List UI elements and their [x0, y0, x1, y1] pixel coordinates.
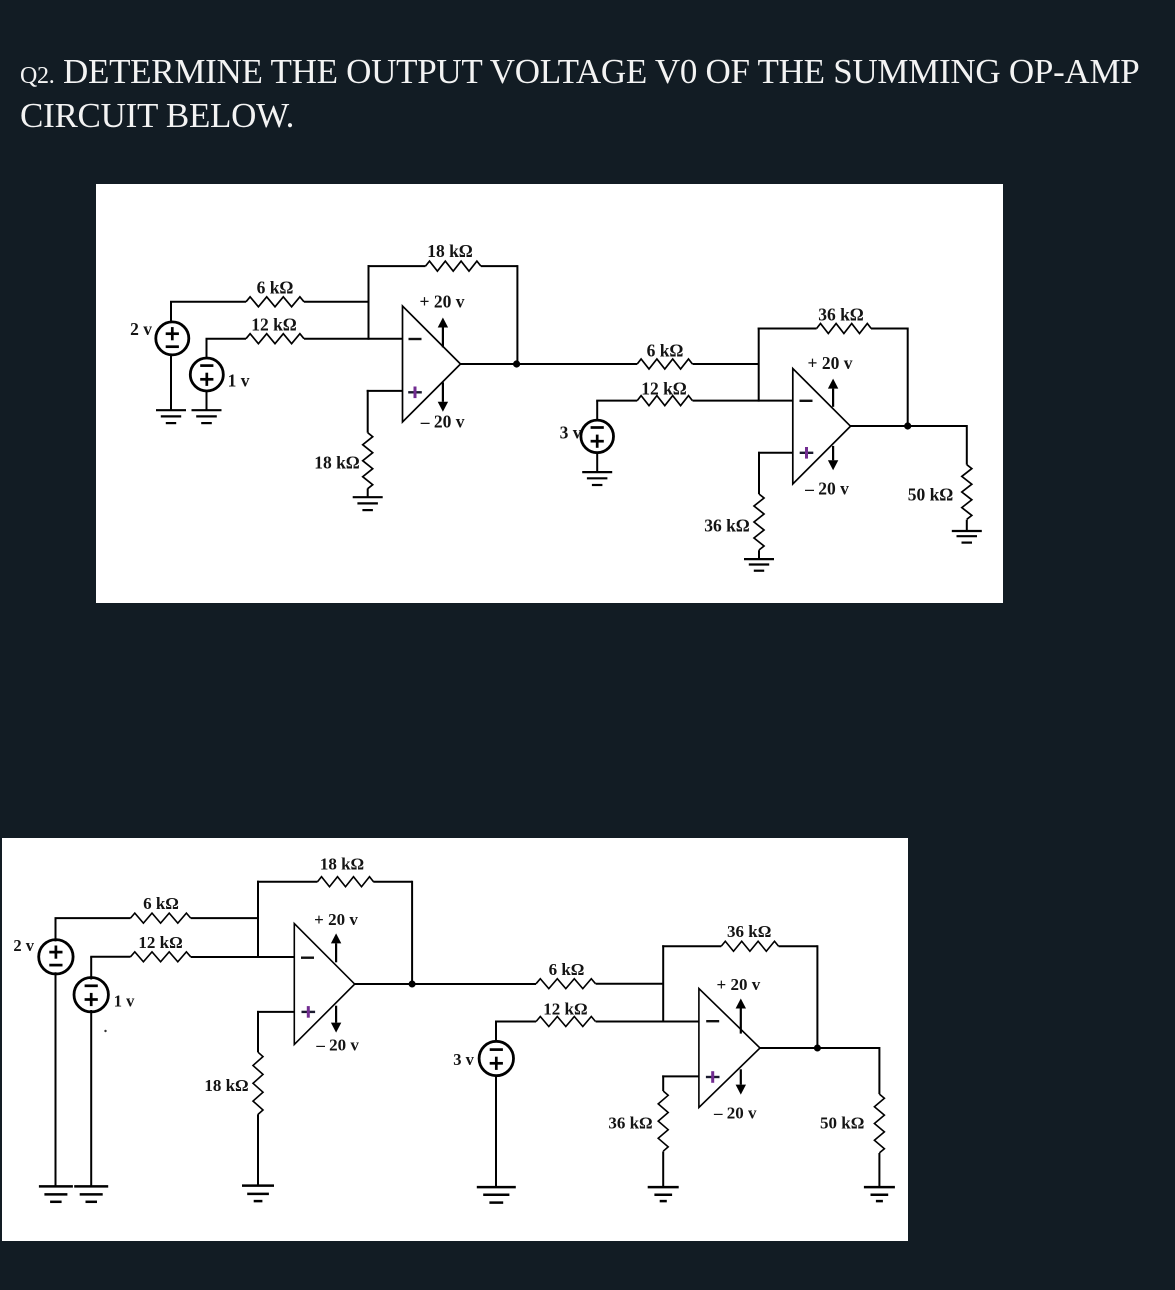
- label R1 6 kOhm: [257, 277, 294, 297]
- svg-text:– 20 v: – 20 v: [713, 1104, 757, 1123]
- svg-text:1 v: 1 v: [228, 370, 250, 390]
- svg-text:12 kΩ: 12 kΩ: [641, 379, 687, 399]
- svg-text:+ 20 v: + 20 v: [420, 292, 465, 312]
- resistor R6 12 kOhm: [637, 396, 692, 406]
- label V3 value 3 v: [560, 423, 582, 443]
- wire feedback 2 left vertical: [662, 945, 664, 1022]
- resistor R9 50 kOhm load: [962, 465, 972, 520]
- U4 non-inverting pin marker: [706, 1071, 720, 1083]
- label R2 12 kOhm: [251, 315, 297, 335]
- ground G8: [74, 1186, 108, 1201]
- label V4 value 2 v: [13, 936, 34, 955]
- label V5 value 1 v: [114, 991, 135, 1010]
- wire V1 top to 6k: [170, 302, 246, 323]
- U3 negative supply arrow: [331, 1006, 341, 1033]
- label R4 18 kOhm: [314, 453, 360, 473]
- U1 inverting pin marker: [409, 338, 422, 340]
- ground G12: [864, 1187, 895, 1201]
- resistor R4 18 kOhm to ground: [363, 433, 373, 489]
- svg-text:36 kΩ: 36 kΩ: [818, 304, 864, 324]
- wire feedback top right: [481, 265, 518, 267]
- label V2 value 1 v: [228, 370, 250, 390]
- op-amp U2: [793, 369, 851, 485]
- wire U3 output: [355, 983, 536, 985]
- svg-text:12 kΩ: 12 kΩ: [251, 315, 297, 335]
- wire R1 to inverting node: [304, 301, 369, 303]
- wire to R9 load: [966, 425, 968, 465]
- voltage source V2 1v: [190, 358, 223, 391]
- label U1 -20 v: [420, 412, 465, 432]
- U1 non-inverting pin marker: [408, 387, 422, 399]
- label R6 12 kOhm: [641, 379, 687, 399]
- label R8 36 kOhm: [704, 515, 750, 535]
- wire feedback 2 right vertical: [816, 945, 818, 1048]
- label R3 18 kOhm: [427, 241, 473, 261]
- node N1 output junction: [513, 360, 520, 367]
- wire feedback right vertical to output: [516, 265, 518, 364]
- U1 positive supply arrow: [438, 318, 448, 348]
- resistor R14 6 kOhm: [536, 979, 595, 989]
- U2 positive supply arrow: [828, 379, 838, 407]
- svg-text:1 v: 1 v: [114, 991, 135, 1010]
- resistor R10 6 kOhm: [131, 913, 191, 923]
- label R12 18 kOhm: [320, 854, 364, 873]
- svg-text:50 kΩ: 50 kΩ: [820, 1114, 864, 1133]
- wire R13 to ground: [257, 1114, 259, 1185]
- wire R14 to second inverting node: [596, 983, 664, 985]
- U2 inverting pin marker: [800, 400, 813, 402]
- ground G7: [39, 1186, 73, 1201]
- node N4 output junction: [814, 1045, 821, 1052]
- node N2 output junction: [904, 422, 911, 429]
- wire V5 top to 12k: [90, 957, 130, 980]
- wire U1 output: [461, 363, 638, 365]
- voltage source V4 2v: [39, 940, 73, 974]
- ground G4: [582, 472, 612, 485]
- wire V2 bottom to ground: [206, 390, 208, 410]
- svg-text:6 kΩ: 6 kΩ: [257, 277, 294, 297]
- label R5 6 kOhm: [647, 340, 684, 360]
- label U2 -20 v: [804, 478, 849, 498]
- label U1 +20 v: [420, 292, 465, 312]
- wire feedback 2 top right: [779, 945, 818, 947]
- U4 negative supply arrow: [736, 1069, 746, 1094]
- circuit panel 2: [2, 838, 908, 1241]
- wire V6 top to 12k: [495, 1022, 536, 1043]
- svg-text:18 kΩ: 18 kΩ: [314, 453, 360, 473]
- label R18 50 kOhm: [820, 1114, 864, 1133]
- ground G6: [952, 531, 982, 543]
- svg-text:2 v: 2 v: [130, 319, 152, 339]
- U4 positive supply arrow: [736, 999, 746, 1034]
- wire R9 to ground: [966, 520, 968, 531]
- wire U2 output: [851, 425, 967, 427]
- label R14 6 kOhm: [549, 960, 585, 979]
- wire feedback top right: [373, 881, 412, 883]
- resistor R1 6 kOhm: [246, 297, 304, 307]
- wire to R18 load: [878, 1047, 880, 1094]
- svg-text:6 kΩ: 6 kΩ: [647, 340, 684, 360]
- svg-text:– 20 v: – 20 v: [315, 1035, 359, 1054]
- wire R6 to op-amp U2 inverting input: [693, 400, 793, 402]
- label R13 18 kOhm: [204, 1076, 248, 1095]
- svg-text:36 kΩ: 36 kΩ: [727, 922, 771, 941]
- wire V3 bottom to ground: [596, 452, 598, 472]
- resistor R8 36 kOhm to ground: [754, 494, 764, 550]
- U3 positive supply arrow: [331, 933, 341, 962]
- resistor R12 18 kOhm feedback: [318, 877, 374, 887]
- ground G10: [477, 1187, 516, 1203]
- svg-text:18 kΩ: 18 kΩ: [204, 1076, 248, 1095]
- svg-text:12 kΩ: 12 kΩ: [543, 999, 587, 1018]
- svg-text:36 kΩ: 36 kΩ: [704, 515, 750, 535]
- wire R5 to second inverting node: [693, 363, 759, 365]
- svg-text:+ 20 v: + 20 v: [717, 975, 761, 994]
- wire U1 non-inverting input: [367, 390, 403, 392]
- label U3 +20 v: [314, 910, 358, 929]
- ground G5: [744, 559, 774, 571]
- resistor R3 18 kOhm feedback: [426, 261, 481, 271]
- voltage source V6 3v: [479, 1041, 513, 1075]
- svg-text:18 kΩ: 18 kΩ: [427, 241, 473, 261]
- U2 negative supply arrow: [828, 446, 838, 470]
- label R9 50 kOhm: [908, 485, 954, 505]
- svg-text:2 v: 2 v: [13, 936, 34, 955]
- op-amp U4: [699, 989, 760, 1108]
- wire V1 bottom to ground: [170, 354, 172, 410]
- label V1 value 2 v: [130, 319, 152, 339]
- wire V4 bottom to ground: [55, 972, 57, 1186]
- op-amp U1: [403, 306, 461, 422]
- resistor R7 36 kOhm feedback: [817, 324, 872, 334]
- wire R10 to inverting node: [191, 917, 258, 919]
- ground G9: [242, 1186, 274, 1202]
- wire V5 bottom to ground: [90, 1010, 92, 1186]
- svg-text:+ 20 v: + 20 v: [314, 910, 358, 929]
- stray dot mark: [104, 1030, 106, 1032]
- wire feedback 2 top right: [871, 328, 908, 330]
- label R10 6 kOhm: [143, 894, 179, 913]
- title question text: [20, 52, 1175, 136]
- ground G11: [648, 1187, 679, 1201]
- wire R2 to op-amp U1 inverting input: [304, 338, 403, 340]
- label U4 -20 v: [713, 1104, 757, 1123]
- wire feedback 2 top left: [758, 328, 817, 330]
- resistor R2 12 kOhm: [246, 334, 304, 344]
- wire V4 top to 6k: [55, 918, 131, 941]
- resistor R11 12 kOhm: [131, 952, 191, 962]
- wire feedback 2 top left: [662, 945, 721, 947]
- resistor R13 18 kOhm to ground: [253, 1052, 263, 1114]
- svg-text:+ 20 v: + 20 v: [808, 353, 853, 373]
- U4 inverting pin marker: [706, 1020, 719, 1022]
- wire V6 bottom to ground: [495, 1075, 497, 1188]
- U1 negative supply arrow: [438, 382, 448, 412]
- label U4 +20 v: [717, 975, 761, 994]
- node N3 output junction: [409, 981, 416, 988]
- svg-text:– 20 v: – 20 v: [420, 412, 465, 432]
- resistor R18 50 kOhm load: [874, 1094, 884, 1153]
- wire to R17: [662, 1075, 664, 1091]
- wire R15 to op-amp U4 inverting input: [596, 1021, 699, 1023]
- wire U4 output: [760, 1047, 879, 1049]
- ground G3: [353, 497, 383, 510]
- voltage source V1 2v: [156, 322, 189, 355]
- wire to R4: [367, 390, 369, 433]
- resistor R17 36 kOhm to ground: [658, 1091, 668, 1151]
- wire feedback right vertical to output: [411, 881, 413, 984]
- svg-text:36 kΩ: 36 kΩ: [608, 1114, 652, 1133]
- ground G2: [192, 410, 222, 423]
- wire V2 top to 12k: [206, 339, 247, 359]
- wire U4 non-inverting input: [662, 1075, 699, 1077]
- op-amp U3: [294, 924, 354, 1045]
- label U3 -20 v: [315, 1035, 359, 1054]
- label R17 36 kOhm: [608, 1114, 652, 1133]
- U3 non-inverting pin marker: [302, 1006, 316, 1018]
- circuit panel 1: [96, 184, 1003, 603]
- label U2 +20 v: [808, 353, 853, 373]
- voltage source V3 3v: [581, 420, 614, 453]
- label R15 12 kOhm: [543, 999, 587, 1018]
- wire feedback left vertical: [368, 265, 370, 340]
- svg-text:3 v: 3 v: [560, 423, 582, 443]
- wire to R8: [758, 452, 760, 494]
- wire R8 to ground: [758, 550, 760, 559]
- label R11 12 kOhm: [138, 933, 182, 952]
- svg-text:12 kΩ: 12 kΩ: [138, 933, 182, 952]
- svg-text:6 kΩ: 6 kΩ: [143, 894, 179, 913]
- label V6 value 3 v: [453, 1050, 474, 1069]
- wire R11 to op-amp U3 inverting input: [191, 956, 295, 958]
- svg-text:50 kΩ: 50 kΩ: [908, 485, 954, 505]
- wire V3 top to 12k: [596, 401, 637, 421]
- wire R18 to ground: [878, 1153, 880, 1187]
- label R16 36 kOhm: [727, 922, 771, 941]
- svg-text:3 v: 3 v: [453, 1050, 474, 1069]
- U2 non-inverting pin marker: [800, 447, 814, 459]
- wire to R13: [257, 1011, 259, 1052]
- svg-text:18 kΩ: 18 kΩ: [320, 854, 364, 873]
- wire feedback 2 left vertical: [758, 328, 760, 402]
- U3 inverting pin marker: [301, 957, 314, 959]
- wire U2 non-inverting input: [758, 452, 793, 454]
- svg-text:6 kΩ: 6 kΩ: [549, 960, 585, 979]
- wire U3 non-inverting input: [257, 1011, 294, 1013]
- svg-text:– 20 v: – 20 v: [804, 478, 849, 498]
- wire feedback 2 right vertical: [907, 328, 909, 427]
- resistor R5 6 kOhm: [637, 359, 692, 369]
- resistor R16 36 kOhm feedback: [721, 941, 778, 951]
- voltage source V5 1v: [74, 978, 108, 1012]
- ground G1: [156, 410, 186, 423]
- label R7 36 kOhm: [818, 304, 864, 324]
- resistor R15 12 kOhm: [536, 1017, 595, 1027]
- wire feedback top left: [257, 881, 318, 883]
- wire R17 to ground: [662, 1151, 664, 1187]
- wire feedback top left: [368, 265, 426, 267]
- wire R4 to ground: [367, 489, 369, 498]
- wire feedback left vertical: [257, 881, 259, 958]
